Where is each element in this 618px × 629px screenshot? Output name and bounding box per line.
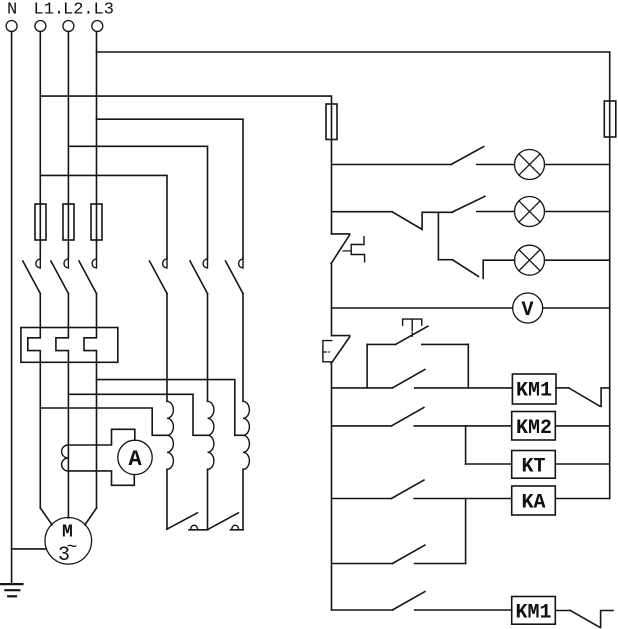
- wire to bottom KM1 coil: [415, 609, 512, 611]
- wire N vertical: [11, 32, 13, 584]
- KA row wire from rail: [332, 498, 392, 500]
- wire lamp2 to right rail: [545, 211, 610, 213]
- KT row wire: [466, 463, 512, 465]
- wire motor lead right diagonal: [85, 508, 97, 525]
- svg-text:~: ~: [67, 538, 78, 558]
- SB1 actuator stem: [323, 351, 330, 353]
- thermal relay FR box: [21, 328, 118, 363]
- SB2 NO blade: [396, 326, 428, 344]
- breaker QF pole 3: [79, 258, 97, 328]
- star contact 2 blade: [208, 513, 239, 530]
- FR auxiliary NC contact on rail: [331, 234, 349, 336]
- svg-text:L3: L3: [94, 1, 114, 20]
- breaker QF pole 1: [23, 258, 41, 328]
- selector common bar: [437, 212, 439, 259]
- svg-text:N: N: [7, 1, 17, 20]
- row 3 tick from selector: [438, 259, 452, 261]
- wire L1 to control fuse: [40, 96, 331, 104]
- wire bottom KM1 coil to interlock: [555, 610, 570, 612]
- fuse FU control right: [604, 101, 616, 137]
- svg-text:V: V: [522, 299, 534, 322]
- row 1 lamp branch wire: [332, 164, 452, 166]
- FR heater element phase 2: [56, 328, 69, 519]
- FR heater element phase 3: [84, 328, 97, 509]
- wire L1 feeder to KM pole 1: [40, 175, 167, 257]
- wire KT coil to right rail: [555, 463, 609, 465]
- autotransformer coil T2: [208, 401, 214, 469]
- wire control rail upper: [331, 104, 333, 234]
- terminal L2: [63, 21, 74, 32]
- terminal L3: [92, 21, 103, 32]
- branch row wire from rail: [332, 563, 393, 565]
- wire to KM1 coil: [415, 387, 513, 389]
- wire tap L2 to autotransformer 2: [68, 394, 207, 435]
- wire branch KA row down: [465, 499, 467, 564]
- switch SA1 blade: [451, 147, 484, 165]
- branch row right lead: [415, 563, 466, 565]
- KM2 NC interlock post bottom: [601, 611, 613, 628]
- CT coil for ammeter: [62, 445, 69, 471]
- SB2 branch top lead: [367, 343, 395, 345]
- KM1 aux NO contact blade: [392, 370, 425, 388]
- wire L3 feeder to KM pole 3: [97, 119, 244, 258]
- wire voltmeter to right rail: [543, 307, 610, 309]
- svg-text:KM1: KM1: [516, 602, 552, 625]
- breaker QF pole 2: [51, 258, 69, 328]
- contactor coil KM2: [512, 412, 556, 441]
- fuse FU2: [63, 204, 74, 240]
- timer coil KT: [512, 451, 556, 479]
- selector contact blade lower: [452, 260, 478, 277]
- wire branch KM2 row to KT row: [465, 426, 467, 464]
- autotransformer coil T1: [167, 401, 173, 469]
- wire motor lead left diagonal: [40, 508, 52, 525]
- KA aux NO contact blade row2: [391, 408, 424, 426]
- wire right rail: [609, 101, 611, 499]
- terminal N: [6, 21, 17, 32]
- wire to lamp 1: [477, 164, 515, 166]
- KM2 NC interlock blade bottom: [570, 611, 599, 628]
- contactor KM2 main pole 1: [150, 258, 168, 402]
- FR trip mechanism symbol: [351, 237, 364, 262]
- selector contact blade upper: [453, 196, 485, 212]
- wire right rail upper: [609, 52, 611, 101]
- wire KA coil to right rail: [555, 498, 609, 500]
- terminal L1: [35, 21, 46, 32]
- stop button SB1 NC on rail: [331, 336, 349, 610]
- start button SB2 branch left vertical: [366, 344, 368, 388]
- KA aux NO contact blade branch row: [392, 545, 425, 563]
- SB1 actuator: [323, 341, 332, 362]
- motor M 3~: [45, 518, 92, 565]
- wire L3 to right rail top: [97, 51, 610, 53]
- svg-text:KM1: KM1: [516, 380, 552, 403]
- SB2 actuator link dash: [411, 332, 413, 337]
- wire N to motor: [12, 548, 47, 550]
- star contact 2 hook: [232, 525, 239, 529]
- wire to KA coil: [414, 498, 512, 500]
- wire KM2 coil to right rail: [555, 425, 609, 427]
- star contact 1 hook: [191, 525, 198, 529]
- wire tap L1 to autotransformer 1: [40, 408, 167, 435]
- selector lower post: [483, 260, 514, 278]
- contactor KM2 main pole 3: [226, 258, 244, 402]
- star contact 1 foot: [189, 529, 208, 531]
- relay coil KA: [512, 486, 556, 515]
- lamp HL2: [515, 197, 545, 227]
- lamp HL1: [515, 150, 545, 180]
- svg-text:KA: KA: [522, 492, 546, 515]
- wire CT to ammeter top: [68, 429, 134, 445]
- KM2 NC interlock blade: [569, 388, 600, 406]
- fuse FU1: [35, 204, 46, 240]
- star contact 2 foot: [231, 529, 244, 531]
- KM2 row wire from rail: [332, 425, 392, 427]
- wire to KM2 coil: [414, 425, 512, 427]
- wire KM1 coil to interlock: [556, 387, 569, 389]
- svg-text:A: A: [129, 447, 143, 472]
- wire L1 vertical upper: [39, 32, 41, 258]
- ground symbol: [1, 584, 23, 596]
- wire L2 vertical upper: [67, 32, 69, 258]
- fuse FU control left: [326, 104, 337, 140]
- wire L2 feeder to KM pole 2: [68, 146, 207, 257]
- contactor coil KM1 bottom: [512, 597, 556, 625]
- wire L3 vertical upper: [96, 32, 98, 258]
- wire lamp3 to right rail: [545, 259, 610, 261]
- wire to lamp 2: [477, 211, 515, 213]
- wire lamp1 to right rail: [545, 164, 610, 166]
- autotransformer coil T3: [243, 401, 249, 469]
- row 2 wire from rail: [332, 211, 393, 213]
- svg-text:KT: KT: [522, 456, 546, 479]
- KM2 NC interlock post: [601, 388, 610, 406]
- ammeter A: [118, 440, 152, 474]
- FR link dash: [343, 250, 351, 252]
- svg-text:L1.: L1.: [34, 1, 65, 20]
- wire CT to ammeter bottom: [68, 471, 134, 485]
- wire T3 lower: [242, 469, 244, 530]
- contactor KM2 main pole 2: [190, 258, 208, 402]
- voltmeter row wire: [332, 307, 513, 309]
- star contact 1 blade: [167, 513, 198, 529]
- svg-text:L2.: L2.: [63, 1, 94, 20]
- KT aux NO contact blade KA row: [391, 480, 424, 498]
- fuse FU3: [91, 204, 102, 240]
- KT aux NO contact blade bottom row: [392, 592, 425, 610]
- selector switch link: [392, 212, 453, 230]
- wire T2 lower: [207, 469, 209, 530]
- bottom KM1 row wire from rail: [332, 609, 393, 611]
- SB2 right lead: [422, 343, 469, 345]
- contactor coil KM1: [512, 374, 556, 404]
- lamp HL3: [515, 245, 545, 275]
- SB2 actuator: [403, 319, 422, 330]
- wire T1 lower: [166, 469, 168, 529]
- FR heater element phase 1: [28, 328, 41, 509]
- wire tap L3 to autotransformer 3: [97, 380, 244, 436]
- svg-text:KM2: KM2: [516, 417, 552, 440]
- KM1 row wire from rail: [332, 387, 393, 389]
- SB2 branch right vertical: [467, 344, 469, 388]
- voltmeter V: [513, 293, 543, 323]
